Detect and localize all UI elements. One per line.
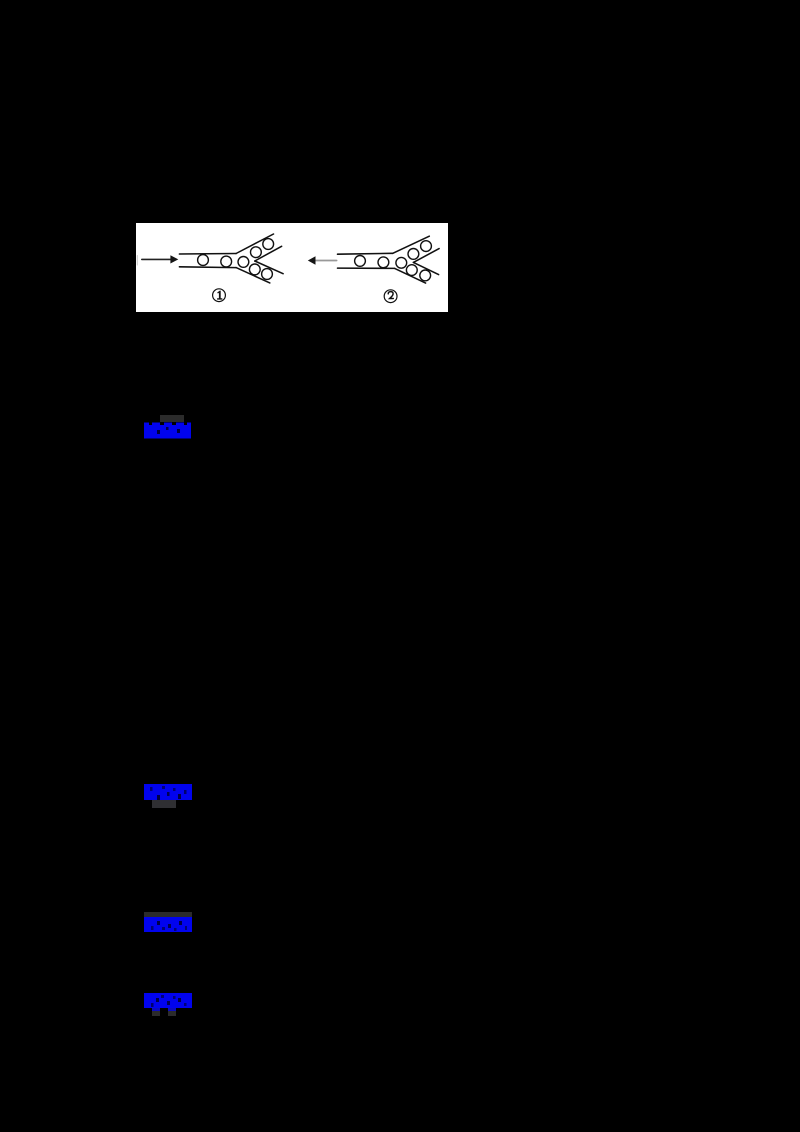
blood cells 1 — [198, 239, 274, 280]
vessel 1 walls — [179, 253, 236, 256]
blue label B — [144, 784, 192, 805]
gray smudge below label B — [152, 800, 176, 808]
label 2 — [384, 290, 397, 303]
blood cells 2 — [355, 241, 432, 281]
gray smudge above label A — [160, 415, 184, 422]
blue label C — [144, 917, 192, 937]
figure: blood vessel diagram panel — [136, 223, 448, 312]
arrow 1 (points right) — [142, 258, 171, 260]
vessel 2 walls — [338, 252, 393, 255]
diagram 2 — [308, 236, 439, 302]
label 1 — [213, 289, 226, 302]
blue label D — [144, 993, 192, 1013]
diagram 1 — [137, 234, 283, 302]
arrow 2 (points left, gray shaft) — [315, 260, 337, 262]
gray smudge above label C — [144, 912, 192, 917]
blue descenders + gray smudges below label D — [152, 1008, 160, 1011]
blue label A — [144, 421, 191, 444]
tick at panel left edge — [136, 256, 138, 266]
